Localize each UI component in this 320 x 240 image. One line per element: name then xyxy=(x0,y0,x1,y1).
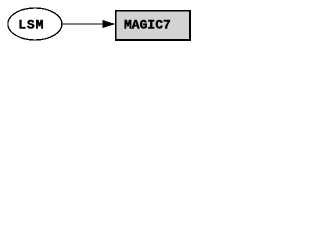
svg-text:MAGIC7: MAGIC7 xyxy=(124,18,171,33)
arrowhead xyxy=(103,21,114,28)
diagram: LSM -> MAGIC7 xyxy=(0,0,192,48)
svg-text:LSM: LSM xyxy=(18,18,44,33)
wire: edge LSM to MAGIC7 xyxy=(62,23,103,25)
node MAGIC7 (box) xyxy=(116,11,190,40)
node LSM (ellipse) xyxy=(8,8,62,40)
